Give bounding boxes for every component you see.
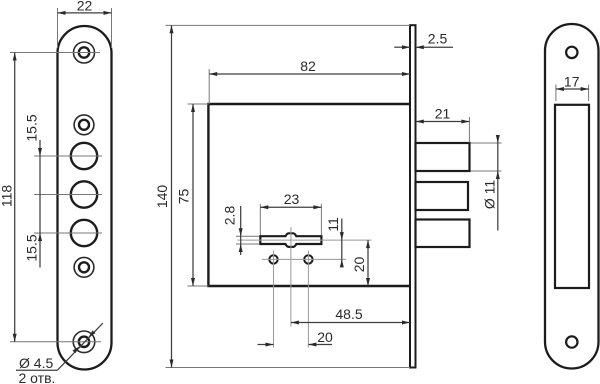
dimension 140 extension lines <box>166 24 411 26</box>
dimension 20 vertical <box>367 240 369 286</box>
svg-text:140: 140 <box>154 185 170 209</box>
dimension 22 extension lines <box>57 8 59 48</box>
dimension 23 extension lines <box>259 204 261 235</box>
svg-text:20: 20 <box>317 329 333 345</box>
dimension 2.8 <box>240 206 242 255</box>
faceplate outline <box>58 26 112 370</box>
extension line bolt hole1 <box>34 155 102 157</box>
centerline horizontal through cam bar <box>238 239 372 241</box>
dimension 22 <box>58 12 112 14</box>
dimension 15.5 (x2) <box>39 140 41 268</box>
svg-text:23: 23 <box>284 191 300 207</box>
dimension 21 extension line <box>468 117 470 143</box>
dimension 75 extension lines <box>188 103 209 105</box>
svg-text:2.8: 2.8 <box>222 206 238 226</box>
lock body outline <box>208 104 410 286</box>
centerline vertical through cam center <box>290 227 292 327</box>
dimension 17 <box>556 88 589 90</box>
dimension 20 horizontal <box>258 344 274 346</box>
svg-text:21: 21 <box>435 106 451 122</box>
dimension 17 extension lines <box>555 85 557 102</box>
dimension 48.5 <box>291 322 410 324</box>
dimension 75 <box>192 104 194 286</box>
fixing hole A <box>269 255 277 263</box>
deadbolt 3 <box>416 220 470 248</box>
strike plate outline <box>545 24 599 369</box>
dimension Ø11 <box>497 136 499 231</box>
screw hole top (ring) <box>74 42 95 63</box>
extension line hole1 center <box>10 52 100 54</box>
centerline vertical hole A <box>273 251 275 348</box>
dimension 2.5 <box>394 46 410 48</box>
dimension 23 <box>260 206 321 208</box>
extension line bottom hole center <box>10 341 101 343</box>
svg-text:22: 22 <box>77 0 93 14</box>
faceplate side view <box>410 25 416 367</box>
svg-text:2 отв.: 2 отв. <box>19 370 56 384</box>
svg-text:Ø 11: Ø 11 <box>482 180 498 210</box>
svg-text:48.5: 48.5 <box>335 306 362 322</box>
extension line bolt hole3 <box>34 232 102 234</box>
centerline vertical hole B <box>307 251 309 348</box>
svg-text:75: 75 <box>176 189 192 205</box>
deadbolt 2 <box>416 182 469 210</box>
svg-text:15.5: 15.5 <box>24 114 40 141</box>
svg-text:Ø 4.5: Ø 4.5 <box>19 355 53 371</box>
strike screw hole top <box>566 47 577 58</box>
dimension 11 <box>341 219 343 268</box>
leader Ø4.5 <box>16 369 57 371</box>
bolt hole 1 <box>71 143 97 169</box>
fixing hole B <box>304 255 312 263</box>
centerline horizontal through fixing holes <box>262 258 346 260</box>
dimension 82 extension line <box>208 69 210 104</box>
dimension Ø11 extension lines <box>471 142 502 144</box>
dimension 21 <box>416 121 470 123</box>
svg-text:118: 118 <box>0 185 15 208</box>
ring hole 2 <box>74 115 94 135</box>
svg-text:2.5: 2.5 <box>428 31 448 47</box>
cam bar <box>260 233 321 247</box>
extension line bolt hole2 <box>34 194 102 196</box>
dimension 118 <box>14 53 16 342</box>
svg-text:82: 82 <box>300 58 316 74</box>
deadbolt 1 <box>416 143 470 171</box>
strike screw hole bottom <box>566 336 577 347</box>
bolt hole 3 <box>71 220 97 246</box>
svg-text:11: 11 <box>325 217 341 232</box>
dimension 140 <box>171 25 173 367</box>
svg-text:15.5: 15.5 <box>24 234 40 261</box>
bolt hole 2 <box>71 181 97 207</box>
strike cutout <box>555 105 589 288</box>
svg-text:17: 17 <box>564 74 580 90</box>
ring hole 5 <box>74 257 94 277</box>
dimension 2.8 extension lines <box>236 235 259 237</box>
dimension 82 <box>209 73 410 75</box>
svg-text:20: 20 <box>351 257 367 273</box>
screw hole bottom (ring) <box>73 331 95 353</box>
